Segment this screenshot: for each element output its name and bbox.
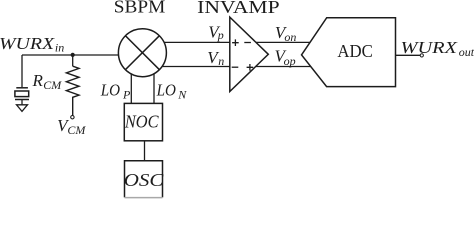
svg-text:n: n xyxy=(218,54,224,68)
svg-text:LO: LO xyxy=(156,81,176,100)
svg-text:NOC: NOC xyxy=(124,112,159,132)
svg-text:OSC: OSC xyxy=(124,170,165,190)
svg-text:CM: CM xyxy=(67,123,86,137)
svg-text:LO: LO xyxy=(100,81,120,100)
svg-text:on: on xyxy=(284,30,296,44)
svg-text:WURX: WURX xyxy=(401,38,458,57)
svg-text:CM: CM xyxy=(43,78,62,92)
svg-text:ADC: ADC xyxy=(337,41,372,61)
svg-text:INVAMP: INVAMP xyxy=(197,0,280,17)
svg-text:SBPM: SBPM xyxy=(114,0,166,17)
svg-text:N: N xyxy=(177,88,187,102)
svg-text:out: out xyxy=(459,45,474,59)
svg-text:P: P xyxy=(122,88,131,102)
svg-text:WURX: WURX xyxy=(0,34,55,53)
svg-text:R: R xyxy=(32,71,44,90)
svg-text:in: in xyxy=(55,41,64,55)
svg-text:op: op xyxy=(284,54,296,68)
svg-text:p: p xyxy=(217,28,224,42)
